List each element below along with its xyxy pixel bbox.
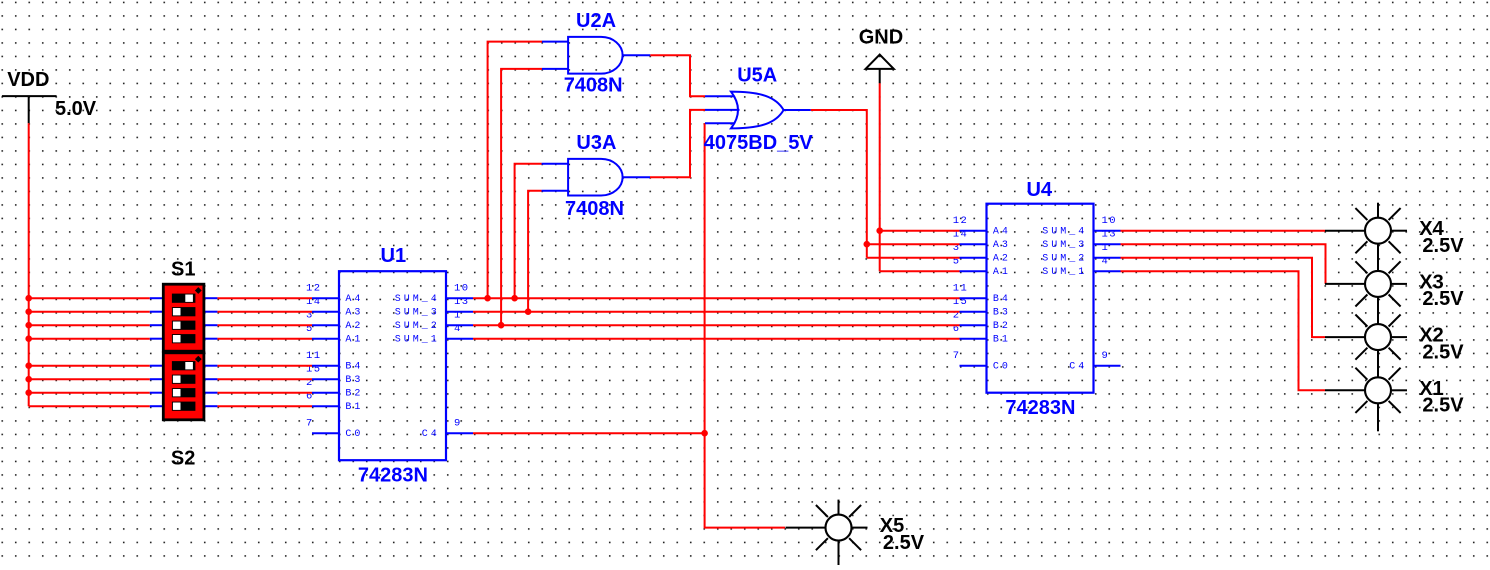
svg-text:SUM_1: SUM_1 bbox=[395, 335, 440, 346]
wire VDD branch to switch row A3 bbox=[29, 311, 150, 313]
junction SUM_4/U3A tap bbox=[511, 295, 518, 302]
wire VDD branch to switch row A2 bbox=[29, 324, 150, 326]
svg-text:U5A: U5A bbox=[737, 64, 777, 86]
wire switch to U1 A3 bbox=[217, 311, 312, 313]
wire VDD branch to switch row B3 bbox=[29, 378, 150, 380]
wire net SUM_2/B2 bbox=[473, 324, 960, 326]
svg-text:11: 11 bbox=[306, 350, 321, 362]
lamp X3 bbox=[1325, 256, 1407, 325]
U4 left pin leads bbox=[960, 231, 987, 366]
svg-text:B2: B2 bbox=[345, 389, 363, 400]
U5A input/output leads bbox=[705, 96, 811, 123]
svg-text:10: 10 bbox=[454, 282, 469, 294]
U4 pin numbers right (10,13,1,4,9) bbox=[1102, 215, 1117, 362]
U1 pin numbers right (10,13,1,4,9) bbox=[454, 282, 469, 429]
ground GND symbol bbox=[866, 55, 894, 84]
svg-text:A1: A1 bbox=[345, 335, 363, 346]
junction GND/U4.A4 bbox=[876, 227, 883, 234]
svg-text:B4: B4 bbox=[993, 294, 1011, 305]
wire switch to U1 B2 bbox=[217, 392, 312, 394]
svg-text:A4: A4 bbox=[993, 227, 1011, 238]
junction VDD bus row 2 bbox=[25, 308, 32, 315]
U4 pin numbers left (12,14,3,5,11,15,2,6,7) bbox=[953, 215, 968, 362]
wire U4.SUM_4 to X4 bbox=[1121, 230, 1326, 232]
lamp X5 bbox=[786, 500, 868, 569]
wire switch to U1 A2 bbox=[217, 324, 312, 326]
svg-text:A2: A2 bbox=[345, 321, 363, 332]
junction VDD bus row 7 bbox=[25, 389, 32, 396]
svg-text:C4: C4 bbox=[1069, 362, 1087, 373]
wire switch to U1 A4 bbox=[217, 297, 312, 299]
svg-text:U2A: U2A bbox=[576, 10, 616, 32]
junction SUM_3/U3A tap bbox=[525, 308, 532, 315]
junction C4/X5 node bbox=[701, 430, 708, 437]
svg-text:2.5V: 2.5V bbox=[1422, 395, 1464, 417]
svg-text:A3: A3 bbox=[345, 308, 363, 319]
svg-text:11: 11 bbox=[953, 282, 968, 294]
svg-text:7: 7 bbox=[953, 350, 961, 362]
U1 left pin leads bbox=[312, 298, 339, 433]
junction U5A-out/U4.A3 bbox=[864, 241, 871, 248]
svg-text:2.5V: 2.5V bbox=[1422, 288, 1464, 310]
svg-text:SUM_3: SUM_3 bbox=[395, 308, 440, 319]
OR gate U5A (3-input) bbox=[731, 92, 784, 129]
wire U4.A1 row bbox=[880, 270, 960, 272]
svg-text:2.5V: 2.5V bbox=[1422, 235, 1464, 257]
svg-text:SUM_4: SUM_4 bbox=[395, 294, 440, 305]
U3A input/output leads bbox=[542, 164, 650, 191]
wire U4.A4 row bbox=[880, 230, 960, 232]
svg-text:10: 10 bbox=[1102, 215, 1117, 227]
AND gate U2A bbox=[568, 37, 623, 74]
wire U1.SUM_3 up to U3A in2 bbox=[528, 191, 542, 312]
svg-text:4075BD_5V: 4075BD_5V bbox=[704, 132, 814, 154]
lamp X1 bbox=[1325, 362, 1407, 431]
junction VDD bus row 4 bbox=[25, 335, 32, 342]
svg-text:SUM_2: SUM_2 bbox=[395, 321, 440, 332]
svg-text:S1: S1 bbox=[171, 259, 195, 281]
svg-text:B2: B2 bbox=[993, 321, 1011, 332]
wire net SUM_1/B1 bbox=[473, 338, 960, 340]
svg-text:9: 9 bbox=[454, 417, 462, 429]
svg-text:12: 12 bbox=[953, 215, 968, 227]
wire switch to U1 B4 bbox=[217, 365, 312, 367]
junction SUM_2/U2A tap bbox=[498, 322, 505, 329]
svg-text:7: 7 bbox=[306, 417, 314, 429]
wire switch to U1 B3 bbox=[217, 378, 312, 380]
svg-text:SUM_4: SUM_4 bbox=[1042, 227, 1087, 238]
lamp X4 bbox=[1325, 203, 1407, 272]
wire U4.SUM_1 to X1 bbox=[1121, 271, 1326, 390]
svg-text:SUM_2: SUM_2 bbox=[1042, 254, 1087, 265]
U2A input/output leads bbox=[542, 42, 650, 69]
wire VDD bus vertical bbox=[28, 123, 30, 406]
wire net SUM_4/B4 bbox=[473, 297, 960, 299]
AND gate U3A bbox=[568, 159, 623, 196]
U4 right pin leads bbox=[1094, 231, 1121, 366]
wire VDD branch to switch row A4 bbox=[29, 297, 150, 299]
wire VDD branch to switch row B2 bbox=[29, 392, 150, 394]
svg-text:7408N: 7408N bbox=[564, 75, 623, 97]
svg-text:9: 9 bbox=[1102, 350, 1110, 362]
S1/S2 left pin leads bbox=[150, 298, 164, 406]
svg-text:B3: B3 bbox=[993, 308, 1011, 319]
svg-text:U4: U4 bbox=[1027, 179, 1053, 201]
svg-text:74283N: 74283N bbox=[358, 464, 428, 486]
svg-text:VDD: VDD bbox=[7, 69, 49, 91]
U1 pin numbers left (12,14,3,5,11,15,2,6,7) bbox=[306, 282, 321, 429]
wire U1.SUM_4 up to U2A in1 bbox=[488, 42, 542, 299]
switch S2 (DIP) bbox=[163, 353, 204, 420]
wire VDD branch to switch row A1 bbox=[29, 338, 150, 340]
chip U4 74283N 4-bit adder box bbox=[987, 204, 1094, 393]
wire GND vertical to U4.A1 bbox=[879, 83, 881, 271]
svg-text:5.0V: 5.0V bbox=[55, 98, 97, 120]
wire U2A out to U5A in1 bbox=[650, 55, 705, 96]
svg-text:C4: C4 bbox=[422, 429, 440, 440]
svg-text:A2: A2 bbox=[993, 254, 1011, 265]
svg-text:GND: GND bbox=[859, 26, 903, 48]
junction VDD bus row 5 bbox=[25, 362, 32, 369]
junction VDD bus row 1 bbox=[25, 295, 32, 302]
wire VDD branch to switch row B4 bbox=[29, 365, 150, 367]
svg-text:7408N: 7408N bbox=[565, 198, 624, 220]
svg-text:2.5V: 2.5V bbox=[883, 532, 925, 554]
wire U1.SUM_4 up to U3A in1 bbox=[515, 164, 542, 299]
svg-text:U1: U1 bbox=[381, 245, 407, 267]
wire switch to U1 B1 bbox=[217, 405, 312, 407]
wire U4.SUM_2 to X2 bbox=[1121, 258, 1326, 337]
svg-text:C0: C0 bbox=[345, 429, 363, 440]
wire switch to U1 A1 bbox=[217, 338, 312, 340]
svg-text:12: 12 bbox=[306, 282, 321, 294]
junction VDD bus row 6 bbox=[25, 376, 32, 383]
svg-text:A1: A1 bbox=[993, 267, 1011, 278]
wire VDD branch to switch row B1 bbox=[29, 405, 150, 407]
wire U4.SUM_3 to X3 bbox=[1121, 244, 1326, 284]
svg-text:S2: S2 bbox=[171, 447, 195, 469]
svg-text:B3: B3 bbox=[345, 375, 363, 386]
junction SUM_4/U2A tap bbox=[484, 295, 491, 302]
svg-text:B1: B1 bbox=[993, 335, 1011, 346]
svg-text:SUM_1: SUM_1 bbox=[1042, 267, 1087, 278]
wire net C4 vertical to U5A in3 / X5 bbox=[705, 123, 785, 527]
wire U4.A2 row bbox=[867, 257, 960, 259]
svg-text:2.5V: 2.5V bbox=[1422, 341, 1464, 363]
svg-text:U3A: U3A bbox=[576, 132, 616, 154]
wire U5A out down to U4.A2 bbox=[811, 110, 867, 258]
S1/S2 right pin leads bbox=[204, 298, 218, 406]
wire net SUM_3/B3 bbox=[473, 311, 960, 313]
svg-text:A3: A3 bbox=[993, 240, 1011, 251]
svg-text:B1: B1 bbox=[345, 402, 363, 413]
wire U1.C4 row bbox=[473, 432, 705, 434]
switch S1 (DIP) bbox=[163, 284, 204, 351]
power VDD symbol bbox=[2, 96, 57, 123]
svg-text:SUM_3: SUM_3 bbox=[1042, 240, 1087, 251]
wire U3A out to U5A in2 bbox=[650, 110, 705, 177]
junction VDD bus row 3 bbox=[25, 322, 32, 329]
lamp X2 bbox=[1325, 309, 1407, 378]
U1 right pin leads bbox=[446, 298, 473, 433]
svg-text:B4: B4 bbox=[345, 362, 363, 373]
chip U1 74283N 4-bit adder box bbox=[339, 271, 446, 460]
svg-text:A4: A4 bbox=[345, 294, 363, 305]
svg-text:74283N: 74283N bbox=[1005, 397, 1075, 419]
wire U4.A3 row bbox=[867, 243, 960, 245]
wire U1.SUM_2 up to U2A in2 bbox=[501, 69, 542, 325]
svg-text:C0: C0 bbox=[993, 362, 1011, 373]
